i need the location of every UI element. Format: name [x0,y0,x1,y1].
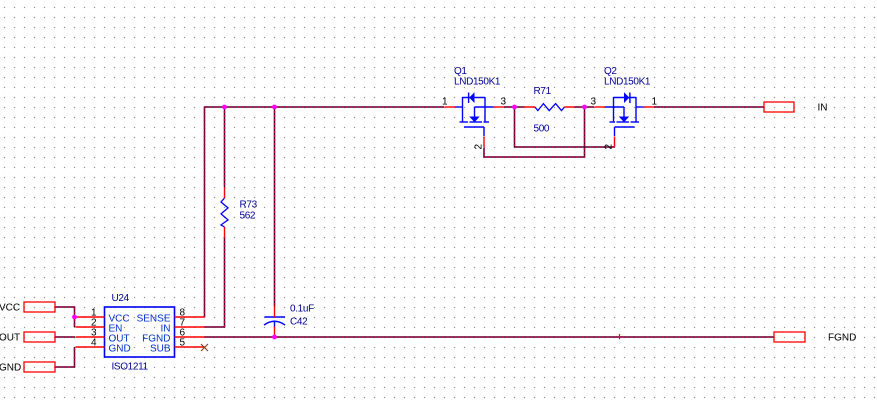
svg-text:4: 4 [91,338,97,349]
capacitor C42 bottom curved plate [264,321,285,325]
svg-text:ISO1211: ISO1211 [112,362,149,373]
svg-text:Q2: Q2 [604,66,617,77]
wire junction C to R71 left [515,106,525,108]
junction C [512,105,517,110]
IC U24 right pin stubs 8-5 [175,317,205,347]
wire R71 right to junction D [575,106,585,108]
IC U24 body [105,307,175,357]
svg-text:IN: IN [818,103,828,114]
svg-text:R73: R73 [240,200,258,211]
junction D [582,105,587,110]
wire junction D to Q2 pin3 [585,106,595,108]
svg-text:SUB: SUB [150,344,171,355]
svg-text:3: 3 [501,97,507,108]
red tick on FGND wire [619,334,621,339]
svg-text:5: 5 [180,338,186,349]
svg-text:GND: GND [0,363,21,374]
wire junction D to Q1 pin2 crossover [484,108,585,157]
junction on VCC pin1 [72,315,77,320]
svg-text:LND150K1: LND150K1 [604,77,651,88]
transistor Q1 [445,92,505,147]
svg-text:OUT: OUT [0,333,20,344]
wire from junction B down to C42 [274,107,276,306]
transistor Q2 mirrored [595,92,655,147]
resistor R71 body [535,104,564,111]
port IN [764,102,794,112]
wire main horizontal net to Q1 pin1 with drop to U24 pin8 [205,107,445,317]
junction A [222,105,227,110]
svg-text:3: 3 [591,97,597,108]
resistor R73 pin stubs [224,187,226,237]
wire junction C to Q2 pin2 crossover [515,108,615,147]
junction B [272,105,277,110]
svg-text:LND150K1: LND150K1 [454,77,501,88]
wire OUT port to U24 pin3 [55,336,75,338]
svg-text:2: 2 [604,144,615,150]
port VCC [24,302,55,312]
wire FGND net from U24 pin6 to FGND port [205,336,775,338]
svg-text:1: 1 [652,97,658,108]
svg-text:VCC: VCC [0,303,20,314]
capacitor C42 top plate [265,316,286,318]
capacitor C42 pin stubs [274,306,276,337]
svg-text:2: 2 [474,144,485,150]
resistor R71 pin stubs [524,106,575,108]
wire GND port to U24 pin4 [55,347,75,367]
capacitor C42 center lead [274,321,276,327]
wire Q2 pin1 to IN port [654,106,764,108]
no-connect X on U24 pin5 [201,344,208,351]
svg-text:R71: R71 [534,86,552,97]
svg-text:0.1uF: 0.1uF [290,304,314,315]
wire Q1 pin3 to junction C [504,106,515,108]
svg-text:C42: C42 [290,317,308,328]
svg-text:FGND: FGND [828,333,856,344]
junction C42 to FGND [272,335,277,340]
svg-text:1: 1 [442,97,448,108]
svg-text:Q1: Q1 [454,66,467,77]
IC U24 left pin stubs 1-4 [76,317,105,347]
port GND [24,362,55,372]
port OUT [24,332,55,342]
svg-text:GND: GND [109,344,131,355]
svg-text:562: 562 [240,211,256,222]
svg-text:U24: U24 [112,293,130,304]
svg-text:500: 500 [534,124,550,135]
resistor R73 body [221,198,228,227]
wire VCC port to U24 pin1 and pin2 [55,307,75,327]
wire from junction A down through R73 column to U24 pin7 [205,107,225,327]
port FGND [774,332,805,342]
